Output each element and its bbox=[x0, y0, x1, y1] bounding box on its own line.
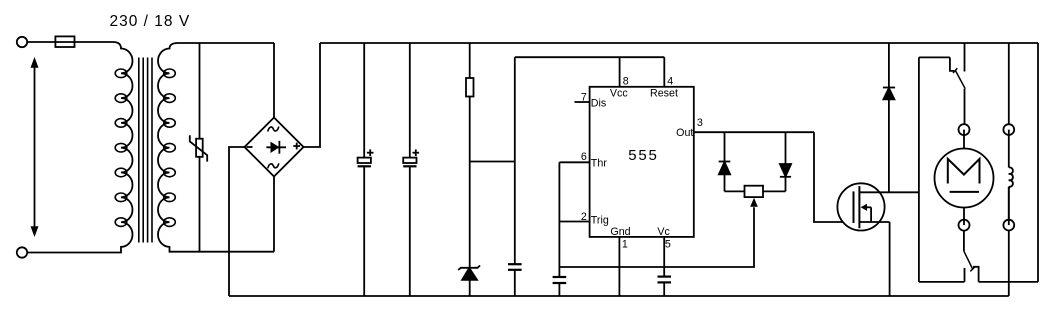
wire (inductor to ground rail) bbox=[1008, 230, 1010, 296]
svg-text:Gnd: Gnd bbox=[610, 226, 630, 238]
pin 3 Out bbox=[676, 117, 814, 139]
svg-text:Out: Out bbox=[676, 127, 693, 139]
varistor RV1 wire bbox=[199, 43, 201, 252]
pin 2 Trig bbox=[559, 211, 608, 227]
wire (pot wiper to Thr/Trig node) bbox=[559, 207, 754, 267]
wire (outer right rail) bbox=[1037, 43, 1039, 282]
Vcc wire to 555 bbox=[515, 56, 665, 58]
pin 8 Vcc bbox=[610, 57, 629, 99]
wire Thr-Trig vertical bbox=[558, 162, 560, 277]
pin 7 Dis bbox=[575, 91, 607, 109]
terminal J1 (mains input top) bbox=[17, 37, 27, 47]
varistor RV1 bbox=[190, 135, 207, 161]
transformer T1 secondary winding bbox=[158, 43, 274, 252]
zener diode D1 bbox=[458, 266, 480, 297]
svg-text:8: 8 bbox=[623, 76, 629, 88]
transformer T1 core bbox=[139, 58, 152, 243]
wire (motor to bottom switch) bbox=[963, 230, 965, 251]
wire (zener node to Vcc branch) bbox=[470, 161, 515, 163]
transformer T1 primary winding bbox=[27, 42, 132, 253]
svg-text:555: 555 bbox=[628, 147, 658, 164]
bridge rectifier B1 bbox=[245, 118, 304, 177]
svg-text:Thr: Thr bbox=[591, 158, 607, 170]
capacitor C1 (electrolytic) bbox=[358, 43, 374, 296]
wire (switch to motor top terminal) bbox=[964, 89, 966, 125]
inductor top terminal bbox=[1003, 124, 1014, 135]
svg-text:Vcc: Vcc bbox=[610, 88, 628, 100]
wire (bottom switch right contact to outer rail) bbox=[979, 281, 1038, 283]
capacitor C2 (electrolytic) bbox=[403, 43, 419, 296]
pin 4 Reset bbox=[650, 57, 678, 99]
pin 1 Gnd bbox=[610, 226, 630, 296]
wire (fuse to transformer primary) bbox=[75, 41, 114, 43]
wire (bridge top to secondary top) bbox=[273, 43, 275, 118]
svg-text:Reset: Reset bbox=[650, 88, 678, 100]
fuse F1 bbox=[55, 36, 74, 47]
svg-text:Dis: Dis bbox=[591, 98, 606, 110]
wire bbox=[963, 130, 965, 149]
diode D4 (flyback) bbox=[883, 43, 895, 192]
wire (out to gate) bbox=[814, 132, 854, 222]
wire (top terminal to fuse) bbox=[27, 41, 55, 43]
ground rail wire bbox=[229, 295, 1009, 297]
pin 5 Vc bbox=[657, 226, 671, 277]
motor top terminal bbox=[959, 124, 970, 135]
svg-text:7: 7 bbox=[581, 91, 587, 103]
svg-text:5: 5 bbox=[665, 239, 671, 251]
svg-text:3: 3 bbox=[697, 117, 703, 129]
inductor L1 bbox=[1009, 130, 1013, 226]
svg-text:2: 2 bbox=[581, 211, 587, 223]
svg-text:Trig: Trig bbox=[591, 214, 609, 226]
diode D3 branch bbox=[780, 132, 791, 191]
wire (bridge right to top rail) bbox=[304, 43, 321, 147]
resistor R1 bbox=[466, 43, 474, 268]
wire (bridge left to ground rail) bbox=[229, 147, 245, 296]
svg-text:230 / 18 V: 230 / 18 V bbox=[110, 13, 191, 30]
diode D2 branch bbox=[719, 132, 731, 191]
wire (top rail to inductor terminal) bbox=[1008, 43, 1010, 124]
motor M1 bbox=[935, 149, 994, 208]
potentiometer P1 bbox=[725, 186, 786, 207]
svg-text:1: 1 bbox=[622, 239, 628, 251]
wire (bridge bottom to secondary bottom) bbox=[273, 177, 275, 252]
transistor Q1 MOSFET bbox=[837, 183, 919, 230]
inductor bottom terminal bbox=[1003, 220, 1014, 231]
svg-text:Vc: Vc bbox=[657, 226, 670, 238]
wire (source to ground rail) bbox=[889, 222, 891, 296]
motor bottom terminal bbox=[959, 220, 970, 231]
wire (inductor into terminal) bbox=[1008, 187, 1010, 225]
capacitor C5 (timing) bbox=[553, 277, 567, 296]
top rail wire bbox=[320, 42, 1038, 44]
wire (drain riser) bbox=[918, 57, 920, 282]
pin 6 Thr bbox=[559, 151, 607, 170]
switch S1a (top) bbox=[919, 43, 965, 89]
wire bbox=[963, 208, 965, 226]
mains voltage arrow bbox=[31, 57, 39, 237]
capacitor C4 (pin5 control) bbox=[658, 277, 672, 296]
capacitor C3 bbox=[508, 57, 522, 296]
op-amp U1 555 box bbox=[590, 87, 694, 237]
svg-text:4: 4 bbox=[667, 76, 673, 88]
switch S1b (bottom) bbox=[964, 251, 979, 282]
wire (bottom switch left contact to drain riser) bbox=[919, 281, 965, 283]
svg-text:6: 6 bbox=[581, 151, 587, 163]
terminal J2 (mains input bottom) bbox=[17, 247, 27, 257]
